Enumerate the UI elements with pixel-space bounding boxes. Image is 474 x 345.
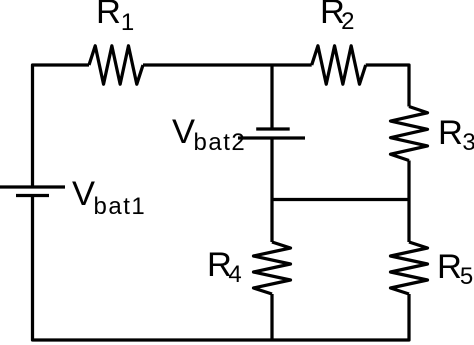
- label V_bat2: [172, 115, 246, 150]
- wire left lower, bottom, right lower: [33, 196, 410, 341]
- resistor R2: [312, 46, 366, 84]
- wire top middle: [143, 63, 312, 66]
- battery V_bat1 long plate: [0, 185, 65, 188]
- label R2: [320, 0, 354, 29]
- wire right middle (R3 to R5): [407, 161, 410, 243]
- label R1: [96, 0, 134, 29]
- resistor R4: [254, 242, 291, 294]
- wire middle horizontal (node between V_bat2/R4 and R3/R5): [272, 198, 408, 201]
- label R5: [436, 250, 472, 285]
- resistor R3: [391, 107, 428, 161]
- resistor R1: [89, 46, 143, 84]
- label V_bat1: [72, 177, 146, 212]
- resistor R5: [391, 242, 428, 294]
- label R3: [438, 116, 474, 151]
- wire top-right corner down to R3: [366, 65, 409, 107]
- battery V_bat1 short plate: [16, 194, 49, 197]
- wire middle vertical (V_bat2 to R4): [270, 138, 273, 242]
- battery V_bat2 long plate: [238, 136, 305, 139]
- wire top-left corner and left upper segment: [33, 65, 90, 187]
- wire middle vertical lower stub: [270, 294, 273, 340]
- wire middle vertical upper (top wire to V_bat2): [270, 65, 273, 129]
- battery V_bat2 short plate: [256, 127, 290, 130]
- label R4: [207, 248, 242, 283]
